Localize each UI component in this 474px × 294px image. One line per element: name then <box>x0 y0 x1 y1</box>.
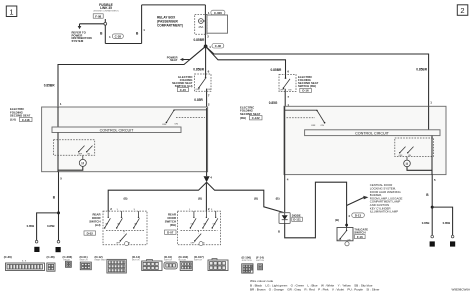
svg-text:C-38: C-38 <box>115 35 122 39</box>
svg-text:(E-106): (E-106) <box>242 256 252 260</box>
electric folding second seat LH label <box>10 107 32 122</box>
svg-text:(C-36): (C-36) <box>4 255 12 259</box>
svg-text:OFF: OFF <box>311 125 316 127</box>
wire right box to ground <box>431 175 433 236</box>
electric folding second seat RH label <box>240 106 262 121</box>
arrow power seat <box>180 58 183 61</box>
bottom connector C-306 <box>66 261 72 267</box>
wire horizontal to riser <box>105 43 141 45</box>
svg-text:ILLUMINATION LAMP: ILLUMINATION LAMP <box>370 210 398 214</box>
svg-text:SWITCH: SWITCH <box>164 260 172 262</box>
svg-text:OFF: OFF <box>195 89 200 91</box>
svg-text:SWITCH: SWITCH <box>80 260 88 262</box>
bottom connector C-36 label <box>4 255 27 262</box>
svg-text:M: M <box>81 161 84 165</box>
joint connector triangle LH <box>206 172 208 177</box>
svg-text:ON: ON <box>288 89 292 91</box>
connector D-16 <box>300 88 312 92</box>
svg-text:C-132: C-132 <box>252 116 260 120</box>
wire triangle to LH rear door switch <box>108 182 206 211</box>
tailgate switch box <box>337 228 353 241</box>
svg-text:M: M <box>406 162 409 166</box>
svg-text:(D-12): (D-12) <box>95 255 103 259</box>
wire pin1 to control circuit RH <box>428 106 430 130</box>
svg-text:OFF: OFF <box>162 124 167 126</box>
svg-text:0.85B: 0.85B <box>422 221 430 225</box>
bottom connector E-106 <box>242 264 253 273</box>
svg-text:D-13: D-13 <box>355 214 362 218</box>
ground 23 <box>56 247 61 252</box>
bottom connector D-10 label <box>164 255 172 262</box>
label power seat <box>167 55 178 62</box>
svg-text:(B): (B) <box>124 197 128 201</box>
svg-text:C-118: C-118 <box>22 118 30 122</box>
bottom connector D-12 label <box>95 255 107 262</box>
wire bar to bottom LH <box>57 133 59 172</box>
wire relay box to junction <box>204 34 206 46</box>
svg-text:0.85B: 0.85B <box>47 224 55 228</box>
fusible link 35 label <box>93 3 118 13</box>
note refer to power distribution system <box>72 31 92 43</box>
tailgate switch contact <box>337 228 351 242</box>
wire riser up <box>141 5 143 44</box>
svg-text:2: 2 <box>460 6 464 15</box>
diode label <box>292 213 303 221</box>
control circuit bar RH <box>305 130 440 136</box>
svg-text:ON: ON <box>207 89 211 91</box>
node ground split LH <box>57 211 60 214</box>
svg-text:(D-14): (D-14) <box>132 255 140 259</box>
svg-text:A : B: A : B <box>22 260 27 263</box>
svg-text:(B): (B) <box>276 197 280 201</box>
svg-text:4: 4 <box>452 243 454 247</box>
relay box dashed outline <box>195 14 207 34</box>
bottom connector C-38 <box>47 263 55 271</box>
bottom connector D-102 label <box>179 255 189 262</box>
svg-text:(B): (B) <box>335 218 339 222</box>
RH inner motor dashed box <box>395 138 434 157</box>
wire junction to right seat unit <box>206 46 429 106</box>
wire triangle to diode <box>207 182 284 212</box>
svg-text:0.85BR: 0.85BR <box>193 67 205 71</box>
node 1 C-306 <box>208 10 225 15</box>
svg-text:0.85BR: 0.85BR <box>416 67 428 71</box>
wire branch to power distribution <box>80 23 104 25</box>
switch LH contact <box>195 74 210 91</box>
corner marker 2 <box>457 5 468 16</box>
svg-text:(RH): (RH) <box>240 116 246 120</box>
ground 4 <box>450 241 455 246</box>
bottom connector D-14 <box>142 260 162 271</box>
wire junction to right switch <box>206 46 286 74</box>
svg-text:1: 1 <box>9 7 13 16</box>
node 4 D-13 <box>348 213 364 218</box>
svg-text:SWITCH: SWITCH <box>194 260 202 262</box>
wire ground branch left <box>37 213 59 241</box>
relay box solid outline <box>207 15 228 33</box>
bottom connector F-14 <box>258 264 263 270</box>
svg-text:SYSTEM: SYSTEM <box>72 39 84 43</box>
svg-text:3: 3 <box>36 248 38 252</box>
diode D-111 <box>279 213 290 224</box>
LH inner motor dashed box <box>54 140 95 156</box>
wire left box to ground <box>58 172 60 241</box>
rear door switch RH box <box>178 211 221 245</box>
rear door switch LH internals <box>104 209 144 246</box>
connector F-08 <box>93 14 103 19</box>
arrow to power distribution system <box>78 24 82 29</box>
svg-text:(C-38): (C-38) <box>47 255 55 259</box>
switch RH box <box>279 75 296 92</box>
wire diode to tailgate riser <box>285 182 347 238</box>
wire right box pin4 to diode <box>284 175 286 213</box>
svg-text:(D-107): (D-107) <box>194 255 204 259</box>
bottom connector D-10 <box>164 262 177 269</box>
wire bar to bottom RH <box>431 136 433 175</box>
svg-text:SWITCH: SWITCH <box>256 260 264 262</box>
bottom connector C-306 label <box>63 255 73 262</box>
svg-text:ON: ON <box>175 124 179 126</box>
arrow to central door locking systems <box>347 196 369 206</box>
electric folding second seat switch RH label <box>298 75 319 88</box>
control circuit bar LH <box>52 127 181 133</box>
svg-text:W9E98CW6A: W9E98CW6A <box>451 288 470 292</box>
svg-text:C-306: C-306 <box>214 11 222 15</box>
rear door switch RH label <box>165 213 177 235</box>
bottom connector C-36 <box>6 263 45 271</box>
svg-text:0.85R: 0.85R <box>194 98 203 102</box>
svg-text:F-08: F-08 <box>95 14 101 18</box>
electric folding second seat RH unit box <box>284 106 446 174</box>
bottom connector D-12 <box>107 259 126 273</box>
node junction C-36 <box>204 45 208 49</box>
svg-text:0.85G: 0.85G <box>269 101 278 105</box>
svg-text:0.85B: 0.85B <box>443 221 451 225</box>
svg-text:(D-102): (D-102) <box>179 255 189 259</box>
svg-text:(F-14): (F-14) <box>256 256 264 260</box>
svg-text:(LH): (LH) <box>95 223 101 227</box>
svg-text:(D-10): (D-10) <box>164 255 172 259</box>
svg-text:7: 7 <box>431 243 433 247</box>
svg-text:0.85B: 0.85B <box>27 224 35 228</box>
svg-text:D-111: D-111 <box>293 218 301 222</box>
node junction circle on fusible link wire <box>104 22 107 25</box>
wire top horizontal <box>142 4 206 6</box>
svg-text:C-36: C-36 <box>215 44 222 48</box>
wire junction to left seat unit <box>58 46 206 107</box>
electric folding second seat switch LH label <box>172 75 193 88</box>
label central door locking systems <box>370 183 403 213</box>
svg-text:D-07: D-07 <box>167 231 174 235</box>
node junction tailgate <box>345 224 348 227</box>
svg-text:D-02: D-02 <box>87 231 94 235</box>
bottom connector E-106 label <box>242 256 253 263</box>
LH inner contacts <box>78 146 93 156</box>
LH inner contact top right <box>162 110 207 127</box>
bottom connector D-107 label <box>194 255 204 262</box>
svg-text:C-15: C-15 <box>180 88 187 92</box>
corner marker 1 <box>6 6 16 17</box>
svg-text:(ENGINE COMPARTMENT): (ENGINE COMPARTMENT) <box>93 10 118 13</box>
svg-text:OFF: OFF <box>280 89 285 91</box>
rear door switch LH box <box>103 211 147 245</box>
svg-text:0.85BR: 0.85BR <box>44 84 56 88</box>
connector C-15 <box>177 87 188 91</box>
ground 7 <box>430 241 435 246</box>
terminal circle left <box>431 235 434 238</box>
svg-text:COMPARTMENT): COMPARTMENT) <box>157 23 183 27</box>
svg-text:(C-306): (C-306) <box>63 255 73 259</box>
svg-text:CONTROL CIRCUIT: CONTROL CIRCUIT <box>100 128 135 132</box>
wire LH pin2 through box <box>206 108 208 172</box>
ground 3 <box>34 247 39 252</box>
svg-text:SEAT: SEAT <box>170 58 178 62</box>
svg-text:0.85BR: 0.85BR <box>270 68 282 72</box>
svg-text:LINK 35: LINK 35 <box>100 6 112 10</box>
switch LH box <box>195 74 212 91</box>
svg-text:REAR SEAT: REAR SEAT <box>95 259 107 262</box>
bottom connector D-01 <box>80 262 91 270</box>
wire right switch to right box <box>284 92 286 107</box>
svg-text:23: 23 <box>56 248 60 252</box>
rear door switch RH internals <box>181 209 218 246</box>
wire from fusible link down <box>104 19 106 44</box>
wire triangle to RH rear door switch <box>205 182 207 211</box>
bottom connector D-107 <box>208 259 228 271</box>
wire RH pin1 through box <box>284 106 286 174</box>
relay box passenger compartment label <box>157 16 183 28</box>
rear door switch LH label <box>84 213 101 236</box>
wire left switch to left box <box>206 91 208 108</box>
svg-text:CONTROL CIRCUIT: CONTROL CIRCUIT <box>355 131 390 135</box>
svg-text:(LH): (LH) <box>10 118 16 122</box>
svg-text:ON: ON <box>321 125 325 127</box>
svg-text:MOTOR: MOTOR <box>132 260 140 262</box>
switch RH contact <box>280 75 292 92</box>
svg-text:(D-01): (D-01) <box>80 255 88 259</box>
terminal circle left <box>35 240 38 243</box>
fuse 24 25A <box>199 14 206 34</box>
bottom connector D-01 label <box>80 255 88 262</box>
wire to power seat <box>183 46 206 59</box>
bottom connector F-14 label <box>256 256 264 263</box>
wire junction to left switch <box>205 46 207 74</box>
terminal circle right <box>451 235 454 238</box>
RH inner contact top left <box>285 110 326 127</box>
svg-text:SWITCH (RH): SWITCH (RH) <box>298 84 316 88</box>
svg-text:(B): (B) <box>254 197 258 201</box>
tailgate switch label <box>354 227 368 239</box>
svg-text:B: B <box>278 230 280 234</box>
svg-text:F-16: F-16 <box>357 235 363 239</box>
electric folding second seat LH unit box <box>42 107 208 172</box>
bottom connector D-14 label <box>132 255 140 262</box>
motor LH <box>58 155 86 171</box>
motor RH <box>404 157 432 175</box>
svg-text:D-16: D-16 <box>302 89 309 93</box>
tailgate switch plunger circle <box>345 242 349 246</box>
wire colour code legend <box>250 279 379 291</box>
svg-text:25A: 25A <box>199 25 204 29</box>
terminal circle right <box>57 240 60 243</box>
svg-text:JUNCTION: JUNCTION <box>242 260 253 262</box>
bottom connector D-102 <box>180 261 192 270</box>
RH inner contacts <box>399 147 414 157</box>
node ground split RH <box>431 206 434 209</box>
wire ground branch right <box>432 207 452 235</box>
wire down to relay box <box>204 5 206 15</box>
svg-text:0.85BR: 0.85BR <box>193 38 205 42</box>
svg-text:BR : Brown O : Orange GR: BR : Brown O : Orange GR : Gray R : Red … <box>250 287 379 291</box>
wire pin1 to control circuit <box>57 107 59 127</box>
svg-text:(RH): (RH) <box>170 223 176 227</box>
node 1 C-38 <box>109 34 123 39</box>
svg-text:(B): (B) <box>198 197 202 201</box>
